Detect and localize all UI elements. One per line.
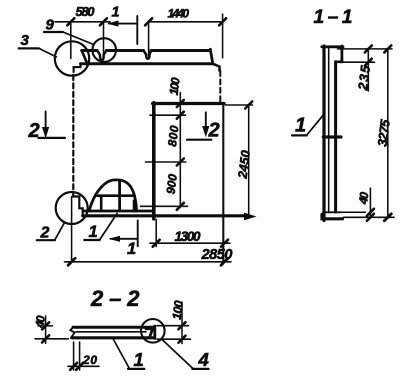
detail circle 9 (lifting notch) (92, 38, 116, 62)
svg-text:40: 40 (356, 191, 372, 206)
panel right edge solid / extension down to 2850 (222, 104, 224, 263)
section 2-2 end notch detail (146, 329, 153, 338)
section 1-1 bar bottom inner line (323, 211, 341, 213)
dimension 3275 (375, 49, 393, 221)
svg-text:100: 100 (170, 299, 186, 320)
label 9 with leader (44, 17, 92, 45)
detail circle 3 (top-left corner) (55, 41, 89, 75)
label 3 with leader (19, 32, 57, 57)
chamfer top-right corner (210, 49, 212, 62)
bottom edge extension to 2450 dimension (244, 215, 249, 217)
ledge edge below top edge (81, 62, 213, 65)
section 2-2 bar bottom edge (72, 336, 155, 339)
section 1-1 bar inner line (328, 47, 330, 212)
arch horizontal chord line (96, 194, 135, 197)
label 4 with leader (section 2-2) (162, 339, 209, 370)
section 1-1 bar right edge (334, 62, 337, 212)
opening left edge (cut, thick) (152, 103, 156, 219)
extension line from opening top to 2450 dimension (226, 104, 253, 106)
svg-text:2 – 2: 2 – 2 (90, 286, 140, 311)
section 2-2 end cap (153, 326, 156, 339)
section 2-2 bar top edge (73, 326, 155, 329)
label 1 with leader (section 1-1) (292, 113, 325, 136)
bottom-left corner step (72, 197, 82, 215)
svg-text:1 – 1: 1 – 1 (314, 7, 353, 28)
extension lines right of bar end (157, 325, 189, 327)
label 2 with leader (bottom-left detail) (37, 222, 65, 241)
svg-text:40: 40 (32, 314, 48, 329)
dimension 1440 (145, 6, 226, 57)
svg-text:4: 4 (198, 349, 209, 370)
svg-text:235: 235 (355, 64, 373, 92)
panel bottom edge (83, 214, 244, 217)
svg-text:580: 580 (76, 4, 96, 19)
lifting notch 9 (left) (97, 51, 106, 60)
extension from bar bottom inner (341, 211, 366, 213)
arch centre vertical line (118, 181, 121, 212)
svg-text:2: 2 (40, 224, 50, 241)
svg-text:2450: 2450 (235, 150, 252, 181)
section 2-2 left break line (70, 327, 74, 338)
section 1-1 bar bottom edge (322, 215, 343, 219)
dimension 1300 (150, 220, 230, 247)
svg-text:100: 100 (167, 76, 183, 95)
right edge hidden (dashed) (219, 71, 221, 103)
svg-text:3275: 3275 (375, 118, 393, 147)
dimension 20 (68, 342, 99, 370)
bottom ledge edge (84, 210, 154, 213)
bottom extension line to 3275 (344, 216, 395, 218)
label 1 with leader (section 2-2) (114, 340, 145, 371)
opening top edge (cut, thick) (153, 102, 224, 105)
detail circle 4 (bar end) (141, 319, 165, 343)
section 1-1 bar left edge (322, 46, 325, 221)
svg-text:20: 20 (82, 353, 97, 367)
left edge hidden (dashed) (72, 75, 74, 196)
svg-text:800: 800 (165, 125, 181, 148)
arch left vertical line (100, 196, 103, 211)
dimension 235 (338, 45, 393, 91)
top-left corner step (74, 64, 81, 72)
arched break-out sketch, outline (89, 180, 137, 211)
svg-text:1440: 1440 (168, 6, 190, 20)
detail circle 2 (bottom-left corner) (56, 192, 88, 224)
section mark 1 (top) (109, 4, 137, 44)
section mark 2 (left) (28, 112, 66, 143)
dimension 40 (section 2-2) (32, 314, 68, 343)
section mark 1 (bottom) (111, 221, 138, 259)
svg-text:1: 1 (112, 4, 120, 20)
arch right thick base (133, 201, 136, 211)
section 1-1 joint line (323, 135, 341, 138)
svg-text:1: 1 (89, 223, 98, 241)
svg-text:3: 3 (21, 32, 30, 49)
dimension 2850 (65, 197, 233, 265)
chamfer top-left corner (82, 51, 87, 64)
svg-text:1: 1 (127, 240, 136, 258)
section 1-1 head right edge (340, 46, 343, 62)
label 1 with leader (arch sketch) (84, 214, 117, 242)
svg-text:2850: 2850 (201, 247, 233, 263)
dimension 100 (section 2-2) (170, 299, 186, 343)
svg-text:900: 900 (164, 173, 180, 195)
dimension chain 100 / 800 / 900 (141, 76, 188, 209)
panel top edge (raised lip), plan view (82, 49, 211, 52)
svg-text:1300: 1300 (175, 229, 201, 244)
svg-text:1: 1 (295, 115, 306, 137)
lifting notch (right) (144, 51, 151, 59)
svg-text:2: 2 (208, 120, 220, 142)
top-right corner step (213, 64, 220, 71)
dimension 580 (55, 4, 110, 59)
svg-text:1: 1 (134, 349, 144, 370)
dimension 40 (section 1-1) (356, 188, 374, 221)
section 1-1 head step (336, 60, 342, 63)
section 1-1 bar top edge (322, 45, 343, 48)
section 2-2 bar inner line (76, 331, 146, 333)
dimension 2450 (235, 102, 254, 220)
section mark 2 (right, inside opening) (187, 112, 220, 141)
